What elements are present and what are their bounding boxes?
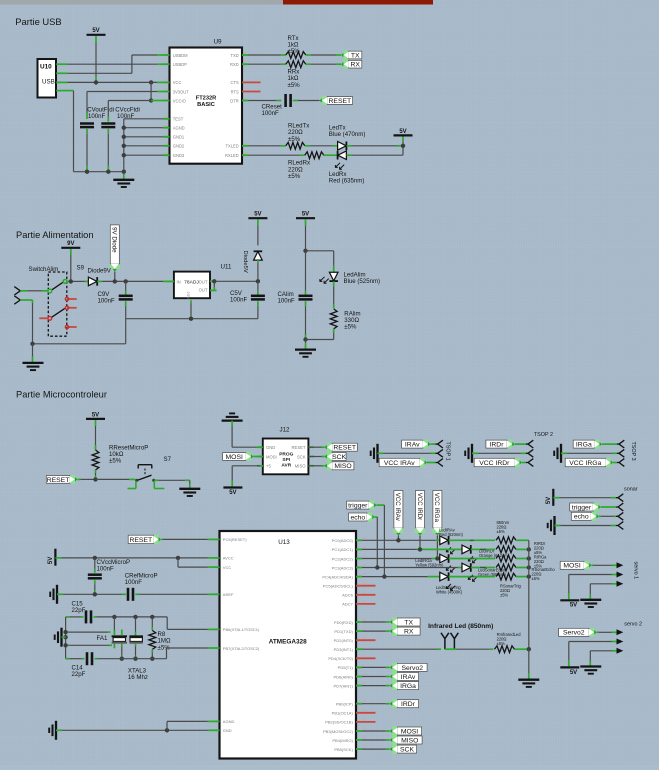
svg-text:9V Diode: 9V Diode xyxy=(111,227,118,253)
svg-text:U13: U13 xyxy=(278,539,290,546)
wire sonar 5V pin xyxy=(553,497,616,499)
capacitor CVccMicroP 100nF xyxy=(88,575,102,579)
wire IRDr to pin xyxy=(515,443,526,445)
wire PD5 to Servo2 xyxy=(362,666,390,668)
svg-text:±5%: ±5% xyxy=(532,576,541,581)
label RLedTx value xyxy=(288,123,309,143)
svg-text:100nF: 100nF xyxy=(262,110,280,117)
svg-text:5V: 5V xyxy=(229,490,236,496)
switch S9 SwitchAlim xyxy=(14,265,84,337)
wire gnd to GND pin xyxy=(56,729,214,731)
wire XTAL3 to bottom row xyxy=(135,643,137,659)
wire PD0 to TX xyxy=(362,621,390,623)
svg-text:PD4(XCK/T0): PD4(XCK/T0) xyxy=(328,656,353,661)
net flag MOSI (U13) xyxy=(390,727,422,736)
wire 5V drop xyxy=(402,137,404,156)
junction AGND branch xyxy=(165,728,169,732)
unconnected U13 pin (red) y=594.8 xyxy=(356,594,376,596)
wire node to S7 xyxy=(96,478,136,480)
svg-text:Partie Alimentation: Partie Alimentation xyxy=(16,230,94,240)
junction R8 top xyxy=(150,615,154,619)
power +5V (AVCC) xyxy=(48,549,55,566)
wire CAlim to gnd node xyxy=(305,301,307,339)
wire to C5V xyxy=(257,281,259,296)
svg-text:AREF: AREF xyxy=(223,592,234,597)
svg-text:PD7(AIN1): PD7(AIN1) xyxy=(333,683,353,688)
power +5V (sonar) xyxy=(546,489,553,506)
svg-text:IN: IN xyxy=(177,279,181,284)
ground (sonar) xyxy=(548,516,555,535)
svg-text:ATMEGA328: ATMEGA328 xyxy=(269,639,307,646)
svg-text:PD0(RXD): PD0(RXD) xyxy=(334,620,354,625)
junction rail row D xyxy=(527,565,531,569)
label RSonarEcho value xyxy=(532,567,556,581)
svg-text:trigger: trigger xyxy=(348,503,368,510)
svg-text:Red (635nm): Red (635nm) xyxy=(329,177,365,184)
label CVccMicroP xyxy=(97,559,131,573)
junction XTAL3 bottom xyxy=(133,657,137,661)
svg-text:RXLED: RXLED xyxy=(225,153,239,158)
junction CVccFtdi gnd xyxy=(106,170,110,174)
junction flag node xyxy=(113,279,117,283)
net flag Servo2 (servo2) xyxy=(559,628,597,637)
junction crystal left xyxy=(63,635,67,639)
net flag echo (sonar) xyxy=(571,512,599,521)
net flag MOSI (servo1) xyxy=(560,561,591,570)
diode Diode9V xyxy=(88,277,97,286)
junction R8 bottom xyxy=(150,657,154,661)
svg-text:TX: TX xyxy=(404,619,413,626)
wire branch to VCC xyxy=(178,558,214,567)
wire gnd to J12 GND xyxy=(232,421,263,448)
wire C5V to rail xyxy=(257,301,259,319)
junction CAlim gnd xyxy=(303,337,307,341)
wire 3V3OUT to CVoutFtdi xyxy=(87,92,163,120)
wire left vertical (crystal) xyxy=(65,617,67,659)
svg-text:PB5(SCK): PB5(SCK) xyxy=(334,747,353,752)
svg-text:RXD: RXD xyxy=(230,62,239,67)
net flag IRAv (U13) xyxy=(390,672,419,681)
wire LedRx to 5V xyxy=(347,154,403,156)
svg-text:USBDP: USBDP xyxy=(173,62,187,67)
svg-text:TSOP 3: TSOP 3 xyxy=(630,442,636,461)
ground (AGND/GND) xyxy=(49,721,56,740)
svg-text:GND2: GND2 xyxy=(173,144,185,149)
junction C9V node xyxy=(124,279,128,283)
LED LedTx blue xyxy=(338,142,347,151)
resistor RResetMicroP 10k xyxy=(92,450,99,470)
label LedRx xyxy=(329,171,365,185)
wire RResetMicroP to reset node xyxy=(95,470,97,479)
wire row A to rail xyxy=(516,539,529,541)
svg-text:±5%: ±5% xyxy=(500,593,509,598)
svg-text:±5%: ±5% xyxy=(497,641,506,646)
junction CVccMicroP xyxy=(93,556,97,560)
capacitor C15 22pF xyxy=(86,610,91,623)
unconnected U13 pin (red) y=640.2 xyxy=(356,639,376,641)
svg-text:11: 11 xyxy=(363,681,366,685)
wire echo to PC3 xyxy=(375,517,378,568)
top toolbar dark red strip xyxy=(283,0,433,5)
svg-text:MOSI: MOSI xyxy=(401,728,418,735)
svg-text:PC5(ADC5/SCL): PC5(ADC5/SCL) xyxy=(323,584,354,589)
svg-text:9V: 9V xyxy=(67,241,74,247)
junction rail row E xyxy=(527,574,531,578)
resistor RSonarEcho 220 xyxy=(496,564,516,571)
net flag trigger (U13) xyxy=(347,501,377,510)
net flag MISO (U13) xyxy=(390,736,422,745)
label TSOP 2 xyxy=(534,432,553,438)
wire row E to rail xyxy=(516,576,529,578)
svg-text:PC3(ADC3): PC3(ADC3) xyxy=(332,565,354,570)
label LedIRGa xyxy=(415,558,444,568)
svg-text:4: 4 xyxy=(165,96,167,100)
resistor RSonarTrig 220 xyxy=(496,573,516,580)
ground (S7) xyxy=(179,480,200,496)
ground (alimentation left) xyxy=(23,344,44,370)
svg-text:Partie USB: Partie USB xyxy=(15,16,61,27)
svg-text:PB1(OC1A): PB1(OC1A) xyxy=(332,711,354,716)
net flag RESET (USB) xyxy=(320,96,353,105)
net flag IRAv (TSOP1) xyxy=(402,440,431,449)
wire top row right xyxy=(94,616,168,618)
svg-text:RX: RX xyxy=(404,629,414,636)
svg-text:22pF: 22pF xyxy=(72,671,86,678)
wire switch to Diode9V xyxy=(67,280,89,282)
wire U10 pin2 crossover to USBDM xyxy=(63,55,164,73)
svg-text:14: 14 xyxy=(165,60,169,64)
label CRefMicroP xyxy=(125,573,158,587)
TSOP3 pins xyxy=(617,440,624,466)
wire MOSI flag to pin xyxy=(253,456,262,458)
wire sonar gnd pin xyxy=(555,525,616,527)
wire 9V to switch xyxy=(70,249,72,281)
junction reset node xyxy=(93,477,97,481)
svg-text:PD3(INT1): PD3(INT1) xyxy=(334,647,354,652)
wire bottom row left xyxy=(66,658,85,660)
top toolbar gray strip xyxy=(0,0,283,5)
label sonar xyxy=(624,487,638,493)
wire to RESET flag xyxy=(308,446,324,448)
svg-text:Blue (525nm): Blue (525nm) xyxy=(344,278,381,285)
svg-text:FA1: FA1 xyxy=(97,635,108,642)
label CVccFtdi xyxy=(115,107,140,121)
svg-text:PB2(SS/OC1B): PB2(SS/OC1B) xyxy=(325,720,353,725)
svg-text:17: 17 xyxy=(363,745,367,749)
svg-text:PD5(T1): PD5(T1) xyxy=(338,665,354,670)
label TSOP 3 (vertical) xyxy=(630,442,636,461)
wire VCC to VCCIO xyxy=(149,82,163,102)
wire 5V to VCC net xyxy=(95,36,97,82)
ground (J12, inverted) xyxy=(222,413,243,420)
wire servo1 5V drop xyxy=(568,575,570,600)
ground (servo1) xyxy=(580,584,601,607)
net flag echo (U13) xyxy=(349,513,375,522)
wire U9 TEST xyxy=(124,118,170,120)
junction XTAL3 top xyxy=(133,615,137,619)
wire RLedTx to LedTx xyxy=(305,145,338,147)
wire PC0 to LedIRAv xyxy=(362,539,440,541)
svg-text:10: 10 xyxy=(363,672,367,676)
resistor RTx 1k xyxy=(286,52,306,59)
junction echo xyxy=(375,565,379,569)
capacitor CVoutFtdi 100nF xyxy=(80,124,94,128)
wire ADJ to rail xyxy=(190,300,192,319)
wire to SCK flag xyxy=(308,456,324,458)
svg-text:2: 2 xyxy=(244,96,246,100)
LED LedRx red xyxy=(335,151,346,169)
svg-text:S7: S7 xyxy=(164,456,172,463)
wire 5V to CAlim node xyxy=(305,219,307,251)
svg-text:±5%: ±5% xyxy=(288,173,301,180)
svg-text:1: 1 xyxy=(244,51,246,55)
svg-text:TSOP 1: TSOP 1 xyxy=(445,442,451,461)
svg-text:TEST: TEST xyxy=(173,117,184,122)
svg-text:100nF: 100nF xyxy=(230,296,248,303)
svg-text:TXD: TXD xyxy=(231,53,239,58)
svg-text:PD6(AIN0): PD6(AIN0) xyxy=(333,674,353,679)
svg-text:FT232R: FT232R xyxy=(196,95,217,101)
svg-text:VCC IRAv: VCC IRAv xyxy=(394,493,401,522)
svg-text:5V: 5V xyxy=(92,412,99,418)
label RInfraredLed value xyxy=(497,632,522,646)
wire row B to rail xyxy=(516,548,529,550)
wire VCC IRAv to pin xyxy=(427,462,436,464)
ground (TSOP2) xyxy=(465,444,472,463)
wire PC3 to LedSonarEcho xyxy=(362,567,462,569)
svg-text:PD2(INT0): PD2(INT0) xyxy=(334,638,354,643)
wire VCCIO to CVccFtdi xyxy=(107,101,109,122)
TSOP1 pins xyxy=(436,440,443,466)
section title Partie USB xyxy=(15,16,61,27)
svg-text:27: 27 xyxy=(363,572,367,576)
unconnected pin CTS (red) xyxy=(242,81,261,83)
power +5V (servo2) xyxy=(560,667,579,675)
svg-text:VCC: VCC xyxy=(223,565,232,570)
label C15 xyxy=(72,601,86,615)
servo1 pin gnd xyxy=(590,581,623,587)
svg-text:16: 16 xyxy=(165,87,169,91)
junction VCC IRGa xyxy=(435,556,439,560)
resistor RLedTx 220 xyxy=(286,142,305,149)
svg-text:OUT: OUT xyxy=(199,279,208,284)
servo2 pin signal xyxy=(597,629,624,635)
svg-text:100nF: 100nF xyxy=(97,565,115,572)
svg-text:±5%: ±5% xyxy=(109,458,122,465)
svg-text:+5: +5 xyxy=(266,464,271,469)
svg-text:RESET: RESET xyxy=(129,537,152,544)
label LedAlim xyxy=(344,271,381,285)
wire PB5 to SCK xyxy=(362,748,390,750)
svg-text:PD1(TXD): PD1(TXD) xyxy=(334,629,353,634)
svg-text:19: 19 xyxy=(165,78,169,82)
wire gnd stub xyxy=(62,636,66,638)
junction 9V node xyxy=(69,279,73,283)
wire VCC IRDr to pin xyxy=(522,462,526,464)
switch S7 (pushbutton) xyxy=(128,456,172,489)
wire Diode9V to U11 IN xyxy=(97,280,168,282)
svg-text:30: 30 xyxy=(363,618,367,622)
junction rail row C xyxy=(527,556,531,560)
capacitor C9V 100nF xyxy=(119,296,133,300)
op-amp U11 78ADJ (regulator IC) xyxy=(168,264,232,300)
power +5V (CAlim) xyxy=(296,212,315,219)
wire row D to rail xyxy=(516,567,529,569)
svg-text:VCC: VCC xyxy=(173,80,182,85)
LED LedSonarEcho xyxy=(462,563,477,581)
wire top row left xyxy=(66,616,84,618)
svg-text:PC6(RESET): PC6(RESET) xyxy=(223,537,247,542)
svg-text:IRGa: IRGa xyxy=(400,683,416,690)
svg-text:PB4(MISO): PB4(MISO) xyxy=(332,738,353,743)
op-amp U13 ATMEGA328 (IC) xyxy=(214,531,367,759)
wire LedSonarTrig to resistor xyxy=(449,576,495,578)
svg-text:RESET: RESET xyxy=(333,445,356,452)
svg-text:IRDr: IRDr xyxy=(490,442,505,449)
capacitor C14 22pF xyxy=(87,652,92,665)
svg-text:32: 32 xyxy=(363,636,367,640)
svg-text:25: 25 xyxy=(165,124,169,128)
svg-text:2: 2 xyxy=(363,654,365,658)
junction AREF row xyxy=(93,592,97,596)
wire CVccFtdi to GND rail xyxy=(107,129,109,172)
LED LedSonarTrig xyxy=(440,572,455,590)
svg-text:White (4500K): White (4500K) xyxy=(436,590,463,595)
wire to CAlim xyxy=(305,251,307,296)
svg-text:VCCIO: VCCIO xyxy=(173,98,186,103)
capacitor CAlim 100nF xyxy=(299,296,313,300)
wire Diode5V to node xyxy=(257,260,259,281)
wire CVccMicroP to AREF row xyxy=(94,580,96,594)
svg-text:J12: J12 xyxy=(280,427,291,434)
ground (servo2) xyxy=(580,651,601,674)
label Diode5V (vertical) xyxy=(242,251,248,273)
svg-text:RTS: RTS xyxy=(231,89,239,94)
svg-text:VCC IRDr: VCC IRDr xyxy=(479,460,510,467)
servo1 pin signal xyxy=(592,562,624,568)
wire U9 GND2 xyxy=(124,145,170,147)
servo1 pin 5V xyxy=(569,572,624,578)
svg-text:21: 21 xyxy=(165,151,169,155)
svg-text:USB: USB xyxy=(42,79,55,86)
svg-text:GND1: GND1 xyxy=(173,135,185,140)
svg-text:echo: echo xyxy=(350,514,365,521)
svg-text:15: 15 xyxy=(165,51,169,55)
net flag TX (U13) xyxy=(390,618,420,627)
net flag VCC IRDr (TSOP2) xyxy=(474,458,522,467)
label R8 value xyxy=(158,631,171,651)
wire LedTx to 5V xyxy=(347,145,403,147)
wire VCC IRAv stem xyxy=(397,536,399,541)
resistor RIRGa 220 xyxy=(496,555,516,562)
svg-text:5V: 5V xyxy=(92,28,99,34)
svg-text:IRDr: IRDr xyxy=(401,701,416,708)
junction 5V/VCC xyxy=(94,80,98,84)
net flag RESET (U13) xyxy=(128,535,161,544)
label Diode9V xyxy=(88,267,112,274)
svg-text:RESET: RESET xyxy=(292,445,306,450)
wire U10 pin1 to USBDP xyxy=(63,63,164,65)
junction trigger xyxy=(382,574,386,578)
FA1 stubs xyxy=(114,630,121,649)
svg-text:trigger: trigger xyxy=(572,504,592,511)
label C14 xyxy=(72,664,86,678)
label CReset xyxy=(262,104,283,118)
wire 5V to RResetMicroP xyxy=(95,420,97,450)
svg-text:RESET: RESET xyxy=(329,98,352,105)
wire CReset to RESET flag xyxy=(293,100,320,102)
svg-text:VCC IRGa: VCC IRGa xyxy=(569,460,601,467)
wire U10 pin3 VCC rail xyxy=(63,81,164,83)
wire RESET to PC6 xyxy=(161,538,214,540)
svg-text:31: 31 xyxy=(363,627,367,631)
wire U9 ground column xyxy=(123,119,125,172)
wire TXD to RTx xyxy=(249,54,286,56)
net flag Servo2 (U13) xyxy=(390,663,427,672)
svg-text:18: 18 xyxy=(165,142,169,146)
wire VCC IRGa to pin xyxy=(613,462,617,464)
label RIRGa value xyxy=(534,555,547,569)
svg-text:ADC6: ADC6 xyxy=(342,593,353,598)
wire to LedAlim xyxy=(333,251,335,272)
wire CRefMicroP to AREF xyxy=(135,593,213,595)
label C5V xyxy=(230,290,248,303)
wire S7 to ground xyxy=(154,479,190,481)
svg-text:100nF: 100nF xyxy=(278,298,296,305)
net flag TX xyxy=(341,51,362,60)
junction 5V out node xyxy=(256,279,260,283)
resistor RRx 1k xyxy=(286,61,306,68)
svg-text:VCC IRDr: VCC IRDr xyxy=(416,493,423,521)
capacitor C5V 100nF xyxy=(251,296,265,300)
wire LedIRDr to resistor xyxy=(471,548,495,550)
ground (TSOP1) xyxy=(371,444,378,463)
label 850nm resistor value xyxy=(497,520,510,534)
junction gnd column xyxy=(122,153,126,157)
wire servo2 5V drop xyxy=(568,642,570,667)
net flag IRDr (U13) xyxy=(390,699,419,708)
svg-text:5V: 5V xyxy=(48,557,54,564)
power +5V (reset pullup) xyxy=(86,412,105,419)
wire between IR leds xyxy=(445,648,455,650)
svg-text:MOSI: MOSI xyxy=(563,563,580,570)
resistor 850nm 220 xyxy=(496,537,516,544)
wire TXLED to RLedTx xyxy=(249,145,286,147)
junction gnd column xyxy=(122,126,126,130)
svg-text:SCK: SCK xyxy=(297,454,306,459)
net flag RX xyxy=(341,60,362,69)
svg-text:MOSI: MOSI xyxy=(226,454,243,461)
net flag VCC IRGa (TSOP3) xyxy=(565,458,613,467)
label RRx value xyxy=(288,69,301,89)
wire 5V to AVCC xyxy=(55,557,213,559)
wire PD7 to IRGa xyxy=(362,685,390,687)
net flag VCC IRGa (vertical) xyxy=(432,491,442,536)
resistor R8 1M xyxy=(149,630,156,649)
capacitor CReset 100nF xyxy=(286,94,291,107)
svg-text:RX: RX xyxy=(350,62,360,69)
servo2 pin 5V xyxy=(569,639,624,645)
ground (LED rail) xyxy=(518,649,539,687)
label LedTx xyxy=(329,125,366,139)
IR emitter 2 xyxy=(451,633,459,649)
wire flag stem xyxy=(114,272,116,282)
unconnected pin RTS (red) xyxy=(242,91,261,93)
svg-text:PC4(ADC4/SDA): PC4(ADC4/SDA) xyxy=(322,574,353,579)
label LedIRAv xyxy=(439,528,464,538)
svg-text:22: 22 xyxy=(244,142,248,146)
wire VCC IRDr stem xyxy=(419,536,421,550)
